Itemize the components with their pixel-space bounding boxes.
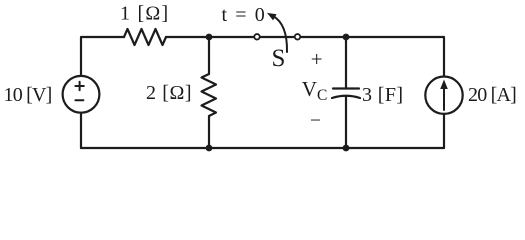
wire left vertical below voltage source (80, 114, 82, 149)
switch S left terminal (254, 34, 260, 40)
svg-text:C: C (317, 87, 327, 104)
label 1 [ohm] for resistor R1 (120, 3, 169, 25)
label Vc capacitor voltage (302, 77, 328, 104)
label 3 [F] for capacitor (362, 84, 403, 106)
wire bottom rail (81, 147, 444, 149)
capacitor C 3F bottom curved plate (332, 96, 360, 98)
svg-text:−: − (310, 111, 321, 132)
junction node dot bottom of capacitor branch (343, 145, 350, 152)
label t = 0 for switch (222, 4, 267, 26)
wire 2-ohm branch lower (208, 116, 210, 148)
svg-text:20 [A]: 20 [A] (468, 84, 516, 106)
capacitor voltage polarity minus (310, 111, 321, 132)
label 2 [ohm] for resistor R2 (146, 82, 192, 104)
capacitor C 3F top plate (333, 87, 359, 89)
svg-text:S: S (272, 45, 286, 72)
wire from switch right terminal to top-right corner down to current source (301, 37, 444, 76)
wire capacitor branch upper (345, 37, 347, 89)
wire from resistor R1 to switch left terminal (166, 36, 254, 38)
wire top-left segment from left corner to resistor R1 (81, 37, 124, 75)
current source arrow (440, 80, 448, 111)
svg-text:1 [Ω]: 1 [Ω] (120, 3, 169, 25)
switch S blade (260, 36, 294, 38)
voltage source minus sign (75, 99, 83, 101)
svg-text:2 [Ω]: 2 [Ω] (146, 82, 192, 104)
wire 2-ohm branch upper (208, 37, 210, 74)
label 10 [V] for voltage source (4, 84, 52, 106)
capacitor voltage polarity plus (311, 47, 323, 71)
switch S right terminal (295, 34, 301, 40)
resistor 1 [ohm] (124, 29, 166, 45)
wire capacitor branch lower (345, 97, 347, 149)
junction node dot top of capacitor branch (343, 34, 350, 41)
svg-text:V: V (302, 77, 317, 101)
voltage source E circle (63, 76, 100, 113)
junction node dot top of 2-ohm branch (206, 34, 213, 41)
svg-text:t = 0: t = 0 (222, 4, 267, 26)
voltage source plus sign (75, 82, 83, 90)
svg-text:3 [F]: 3 [F] (362, 84, 403, 106)
junction node dot bottom of 2-ohm branch (206, 145, 213, 152)
resistor 2 [ohm] (202, 74, 217, 116)
svg-text:+: + (311, 47, 323, 71)
current source J circle (425, 77, 462, 114)
label 20 [A] for current source (468, 84, 516, 106)
label S for switch (272, 45, 286, 72)
wire current source bottom to bottom-right corner (443, 115, 445, 149)
svg-text:10 [V]: 10 [V] (4, 84, 52, 106)
switch S actuation arrow arc (267, 13, 287, 52)
